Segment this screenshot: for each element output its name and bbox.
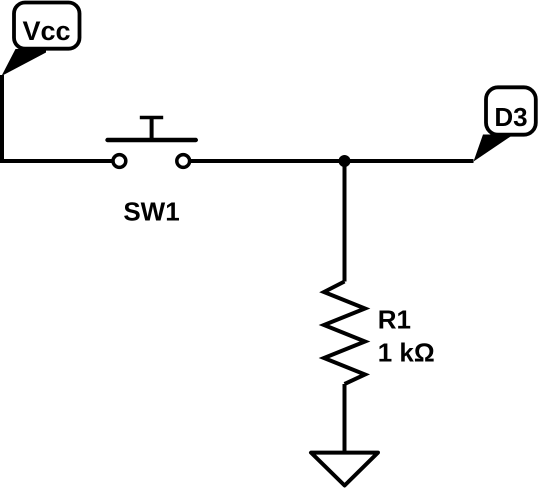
wire junction down to resistor xyxy=(343,159,347,282)
svg-text:1 kΩ: 1 kΩ xyxy=(378,338,435,368)
wire switch right pin to D3 flag xyxy=(191,159,474,163)
SW1 actuator bar xyxy=(108,138,196,142)
net label D3 xyxy=(474,87,536,161)
resistor R1 xyxy=(324,282,435,385)
SW1 actuator stem xyxy=(150,118,154,141)
switch SW1 xyxy=(108,118,196,227)
wire Vcc down to corner xyxy=(0,75,4,161)
SW1 pin 1 circle xyxy=(113,155,126,168)
svg-text:Vcc: Vcc xyxy=(22,16,70,46)
wire corner to switch left pin xyxy=(0,159,112,163)
svg-text:SW1: SW1 xyxy=(123,197,179,227)
SW1 actuator cap xyxy=(140,116,163,120)
wire resistor to ground xyxy=(343,384,347,452)
net label Vcc xyxy=(2,3,80,77)
svg-text:D3: D3 xyxy=(494,102,527,132)
ground xyxy=(311,453,378,486)
SW1 pin 2 circle xyxy=(177,155,190,168)
svg-text:R1: R1 xyxy=(378,305,411,335)
junction node xyxy=(339,155,351,167)
